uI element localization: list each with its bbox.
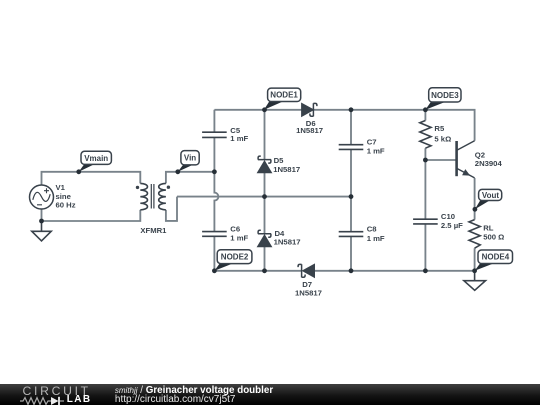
svg-text:5 kΩ: 5 kΩ xyxy=(434,135,451,144)
junction C10 bottom xyxy=(423,268,428,273)
junction Vin anchor xyxy=(175,169,180,174)
footer url line xyxy=(115,395,236,405)
wire: R5/C10 branch xyxy=(424,110,426,271)
diode D7 xyxy=(303,265,314,277)
logo CIRCUIT xyxy=(23,385,91,397)
svg-text:Q2: Q2 xyxy=(475,150,485,159)
svg-text:1N5817: 1N5817 xyxy=(296,126,323,135)
resistor R5 xyxy=(420,121,431,149)
node flag Vout xyxy=(475,189,502,209)
svg-text:1 mF: 1 mF xyxy=(367,147,385,156)
svg-text:C6: C6 xyxy=(230,225,240,234)
junction D5-D4 middle xyxy=(262,194,267,199)
wire: C5 branch with hop xyxy=(214,110,218,271)
node flag NODE4 xyxy=(475,250,513,271)
junction C8 bottom xyxy=(349,268,354,273)
svg-text:NODE4: NODE4 xyxy=(482,253,510,262)
svg-text:60 Hz: 60 Hz xyxy=(56,201,76,210)
wire: secondary top to C5 branch xyxy=(166,172,215,184)
junction D4 bottom xyxy=(262,268,267,273)
wire: primary loop top xyxy=(42,172,141,185)
capacitor C10 xyxy=(413,219,438,224)
node NODE2 junction xyxy=(212,268,217,273)
junction Vmain anchor xyxy=(76,169,81,174)
capacitor C7 xyxy=(339,145,364,150)
wire: Q2 emitter to RL xyxy=(474,178,476,271)
junction secondary-C5 branch xyxy=(212,169,217,174)
footer title line xyxy=(115,386,273,396)
node NODE3 junction xyxy=(423,107,428,112)
wire: Q2 base wire xyxy=(425,159,456,161)
node flag NODE2 xyxy=(214,250,252,271)
svg-text:NODE3: NODE3 xyxy=(431,91,459,100)
svg-text:1 mF: 1 mF xyxy=(230,234,248,243)
svg-text:C7: C7 xyxy=(367,138,377,147)
wire: primary loop bottom xyxy=(42,209,141,221)
junction V1 ground xyxy=(39,219,44,224)
svg-text:Vin: Vin xyxy=(184,154,196,163)
voltage source V1 xyxy=(30,185,54,209)
svg-text:2.5 µF: 2.5 µF xyxy=(441,221,463,230)
svg-text:2N3904: 2N3904 xyxy=(475,159,503,168)
footer bar xyxy=(0,384,540,405)
svg-text:V1: V1 xyxy=(56,183,66,192)
ground (NODE4) xyxy=(464,271,486,291)
capacitor C8 xyxy=(339,232,364,237)
diode D5 xyxy=(258,162,271,173)
svg-text:R5: R5 xyxy=(434,124,445,133)
wire: D5/D4 branch xyxy=(264,110,266,271)
junction middle wire right end xyxy=(349,194,354,199)
node NODE1 junction xyxy=(262,107,267,112)
node flag Vmain xyxy=(79,151,112,172)
svg-text:D5: D5 xyxy=(274,156,285,165)
resistor RL xyxy=(469,220,480,249)
ground (V1) xyxy=(32,221,51,241)
svg-text:C8: C8 xyxy=(367,225,378,234)
node flag Vin xyxy=(178,151,199,172)
logo resistor-diode glyph xyxy=(20,396,66,405)
diode D6 xyxy=(302,104,313,116)
svg-text:sine: sine xyxy=(56,192,72,201)
transformer core xyxy=(151,184,154,209)
wire: bottom horizontal xyxy=(214,270,474,272)
svg-text:1N5817: 1N5817 xyxy=(274,238,301,247)
node flag NODE3 xyxy=(425,88,461,110)
svg-text:1N5817: 1N5817 xyxy=(273,165,300,174)
transformer phase dots xyxy=(136,186,139,189)
svg-text:1 mF: 1 mF xyxy=(230,134,248,143)
svg-text:Vmain: Vmain xyxy=(84,154,108,163)
wire: secondary bottom jog xyxy=(166,197,177,221)
wire: middle horizontal xyxy=(177,196,351,198)
svg-text:1N5817: 1N5817 xyxy=(295,289,322,298)
svg-text:1 mF: 1 mF xyxy=(367,234,385,243)
node NODE4 junction xyxy=(472,268,477,273)
capacitor C6 xyxy=(202,232,227,237)
svg-text:NODE2: NODE2 xyxy=(221,253,249,262)
node flag NODE1 xyxy=(264,88,301,110)
logo LAB xyxy=(67,395,92,405)
transformer XFMR1 secondary coil xyxy=(159,183,166,209)
junction R5-C10-base xyxy=(423,158,428,163)
junction C7 top xyxy=(349,107,354,112)
transistor Q2 xyxy=(455,141,458,176)
svg-text:XFMR1: XFMR1 xyxy=(140,226,167,235)
wire: C7/C8 branch xyxy=(350,110,352,271)
svg-text:NODE1: NODE1 xyxy=(270,91,298,100)
svg-text:Vout: Vout xyxy=(482,191,500,200)
wire: top horizontal xyxy=(214,110,474,141)
node Vout junction xyxy=(473,207,478,212)
svg-text:500 Ω: 500 Ω xyxy=(483,232,504,241)
transformer XFMR1 primary coil xyxy=(140,183,147,209)
svg-text:RL: RL xyxy=(483,223,494,232)
diode D4 xyxy=(258,236,271,247)
svg-text:C10: C10 xyxy=(441,212,455,221)
capacitor C5 xyxy=(202,132,227,137)
